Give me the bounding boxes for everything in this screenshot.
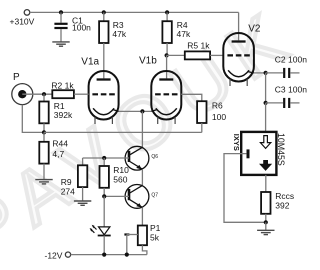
ground under R44 xyxy=(35,180,52,184)
svg-text:R2 1k: R2 1k xyxy=(51,81,74,91)
resistor R1 xyxy=(39,94,73,132)
resistor R2 xyxy=(51,81,88,99)
connector P xyxy=(12,72,33,104)
svg-text:-12V: -12V xyxy=(45,251,63,261)
capacitor C2 xyxy=(266,54,308,78)
tube V1a xyxy=(81,56,118,124)
wire C3 node down to U1 xyxy=(265,103,267,132)
svg-text:10M45S: 10M45S xyxy=(276,133,286,166)
svg-text:100: 100 xyxy=(212,112,226,122)
LED D1 xyxy=(90,196,111,254)
tube V1b xyxy=(139,56,181,124)
node R3 tap xyxy=(102,10,106,14)
svg-text:P1: P1 xyxy=(150,223,161,233)
transistor Q6 xyxy=(125,146,158,170)
node R1 bottom / R44 top xyxy=(42,130,46,134)
ground output xyxy=(257,230,274,234)
transistor Q7 xyxy=(125,185,158,209)
wire to ground xyxy=(265,222,267,230)
node wiper to rail xyxy=(125,253,129,257)
IXYS current source U1 10M45S xyxy=(232,132,286,175)
wire Q6 emitter to Q7 collector xyxy=(141,169,143,185)
wire Q7 emitter down to P1 xyxy=(141,207,143,225)
resistor R10 xyxy=(100,158,130,196)
svg-text:392: 392 xyxy=(275,200,289,210)
node R4/V1b anode/R5 xyxy=(165,53,169,57)
wire cathode node down to Q6 collector xyxy=(141,111,143,147)
svg-text:C3 100n: C3 100n xyxy=(275,85,307,95)
wire common cathodes xyxy=(119,110,152,112)
svg-text:V1a: V1a xyxy=(81,56,99,67)
svg-text:47k: 47k xyxy=(112,29,126,39)
capacitor C1 xyxy=(54,12,91,41)
ground under R9 xyxy=(74,201,91,205)
wire V2 cathode to C2 node xyxy=(254,72,266,74)
svg-text:R10: R10 xyxy=(113,165,129,175)
resistor Rccs xyxy=(261,175,294,222)
svg-text:V1b: V1b xyxy=(139,56,157,67)
svg-text:R6: R6 xyxy=(212,101,223,111)
wire V1b anode lead xyxy=(166,55,168,78)
ground under C1 xyxy=(52,42,69,46)
svg-text:392k: 392k xyxy=(54,110,73,120)
svg-text:100n: 100n xyxy=(72,22,91,32)
svg-text:Q7: Q7 xyxy=(151,193,158,199)
svg-text:Q6: Q6 xyxy=(151,154,158,160)
wire Q6 base xyxy=(104,157,129,159)
resistor R9 xyxy=(61,158,104,201)
resistor R4 xyxy=(162,12,191,55)
node R1 top xyxy=(42,92,46,96)
svg-text:274: 274 xyxy=(61,186,75,196)
resistor R6 xyxy=(181,94,226,132)
capacitor C3 xyxy=(266,85,308,108)
svg-text:47k: 47k xyxy=(177,29,191,39)
svg-text:R5 1k: R5 1k xyxy=(187,41,210,51)
wire U1 gate to ground run xyxy=(224,154,266,223)
svg-text:P: P xyxy=(13,72,20,83)
node cathode join xyxy=(140,109,144,113)
wire P center to R2 xyxy=(22,93,52,95)
node R10 bottom xyxy=(102,194,106,198)
node C2 tap xyxy=(264,71,268,75)
wire top supply rail xyxy=(30,11,239,13)
wire Q7 base xyxy=(104,195,129,197)
svg-text:V2: V2 xyxy=(248,24,261,35)
terminal -12V xyxy=(65,252,70,257)
node LED to rail xyxy=(102,253,106,257)
resistor R3 xyxy=(99,12,127,78)
svg-text:+310V: +310V xyxy=(10,17,35,27)
wire -12V rail xyxy=(71,254,147,256)
svg-text:4,7: 4,7 xyxy=(52,149,64,159)
svg-text:560: 560 xyxy=(113,175,127,185)
resistor R5 xyxy=(167,41,224,60)
wire C2 node down to C3 node xyxy=(265,73,267,103)
node C3 tap xyxy=(264,101,268,105)
node R4 tap xyxy=(165,10,169,14)
svg-text:R44: R44 xyxy=(52,139,68,149)
svg-text:5k: 5k xyxy=(150,233,160,243)
resistor R44 xyxy=(39,132,68,179)
wire long ground-return to R6 xyxy=(44,131,202,133)
node Rccs bottom xyxy=(264,220,268,224)
node C1 tap xyxy=(59,10,63,14)
potentiometer P1 xyxy=(124,223,160,254)
tube V2 xyxy=(223,24,261,86)
terminal +310V xyxy=(24,10,30,16)
svg-text:IXYS: IXYS xyxy=(232,134,241,151)
node R10 top xyxy=(102,156,106,160)
wire rail corner down to V2 anode xyxy=(238,12,240,40)
wire connector shell down and right xyxy=(22,105,44,133)
svg-text:C2 100n: C2 100n xyxy=(275,54,307,64)
